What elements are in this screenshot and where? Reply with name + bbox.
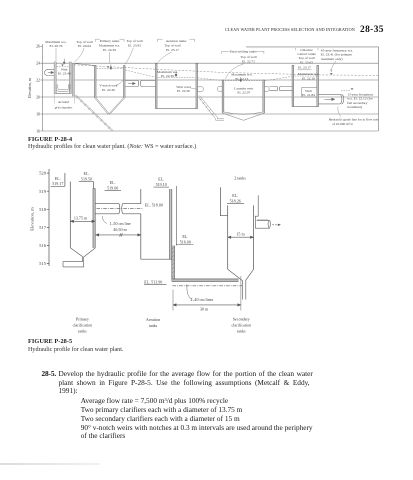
assumption list line 2 [81,406,243,413]
fig2 EL 513.90 underline [144,283,167,285]
fig1 aeration water surface [158,77,195,79]
svg-text:Elevation, m: Elevation, m [30,207,36,231]
svg-text:Weir crest: Weir crest [176,85,190,89]
fig2 dim 30 m extension lines [173,276,241,311]
fig2 leader 2-40cm to pipe [187,285,192,300]
svg-text:El. 26.76: El. 26.76 [50,44,63,48]
fig1 aerated grit chamber walls [54,62,74,96]
svg-text:El. 21.84: El. 21.84 [302,93,315,97]
fig1 WS dashed settling to chlorine [265,76,293,81]
fig2 label EL 518.26 [230,193,241,203]
fig1 influent pipe [45,70,55,76]
svg-text:Aeration: Aeration [146,317,160,322]
fig1 grit to primary top slope line [74,64,94,66]
fig1 grit chamber trough [56,84,70,91]
fig1 leader top of wall 23.93 [126,48,134,65]
svg-text:Aerated: Aerated [57,100,69,104]
svg-text:46.50 m: 46.50 m [113,227,127,232]
svg-text:Maximum w.s.: Maximum w.s. [99,43,120,47]
svg-text:24: 24 [36,62,40,66]
fig2 pipe centerline dash-dot [97,208,144,210]
fig1 settling drop arrow [240,77,242,82]
fig2 dim 15 m line [228,236,254,238]
svg-text:Top of wall: Top of wall [240,55,256,59]
svg-text:Maximum w.s.: Maximum w.s. [157,70,178,74]
svg-text:30 m: 30 m [200,307,209,312]
fig2 EL 519.00 underline [105,190,122,192]
fig1 grit chamber drop arrow [63,59,65,64]
svg-text:Elevation, m: Elevation, m [28,78,33,98]
fig1 aeration drop arrow [175,72,177,77]
fig2 primary influent line [64,173,66,186]
fig2 dim 30 m line [173,304,241,306]
fig1 WS dashed aeration to settling [198,78,223,81]
svg-text:519: 519 [39,189,47,194]
svg-text:16: 16 [36,129,40,133]
page number 28-35 [360,26,384,35]
svg-text:15 m: 15 m [236,231,245,236]
assumption list line 5 [81,432,126,439]
fig1 leader primary label [109,52,111,64]
fig2 outlet bottom line [255,227,270,229]
svg-text:1–50 cm line: 1–50 cm line [109,221,131,226]
svg-text:516.00: 516.00 [180,239,191,244]
problem paragraph line 1 [59,370,313,377]
fig2 primary hopper and sludge outlet [63,248,95,267]
svg-text:El. 24.39: El. 24.39 [103,48,116,52]
fig1 label chlorine max ws [298,72,319,80]
fig1 settling bracket lines [222,51,264,54]
svg-text:grit chamber: grit chamber [55,106,73,110]
fig1 label primary tanks bracket [99,39,120,52]
svg-text:Maximum w.s.: Maximum w.s. [231,73,252,77]
fig1 leader HGL note [338,107,341,117]
svg-text:El. 23.17: El. 23.17 [166,48,179,52]
fig1 label maximum ws El 26.76 [45,40,66,48]
svg-text:EL. 513.90: EL. 513.90 [144,279,162,284]
fig1 label chlorine contact tanks [297,48,316,65]
fig1 primary WS mark [107,66,110,68]
fig1 leader aeration label [158,52,172,63]
fig1 label weir El 23.46 [58,68,71,76]
fig1 right frame [378,47,380,131]
fig2 outlet weir line [257,219,269,221]
svg-text:26: 26 [36,45,40,49]
fig1 leader 45-year to WS mark [330,61,336,72]
fig2 aeration tank right wall (double with fill) [170,189,172,259]
fig1 grit chamber extension lines [54,94,74,104]
assumption list line 1 [81,397,228,404]
fig2 downcomer hatched bar [172,246,175,282]
fig2 label aeration tanks [146,317,160,328]
fig2 label secondary clarification tanks [232,317,252,334]
fig1 label top of wall El 23.93 [126,39,142,47]
fig1 45-year HGL dashed line across [74,65,378,76]
fig2 EL 518.26 underline [227,203,244,205]
svg-text:519.50: 519.50 [81,176,92,181]
running head title [225,28,355,32]
fig1 chlorine water surface [295,75,317,77]
fig1 pipe1 flow arrow [128,82,135,84]
svg-text:El. 22.71: El. 22.71 [242,60,255,64]
fig1 leader top of wall 22.71 [225,64,243,79]
fig2 dim 46.50 line [96,234,141,236]
fig2 50cm pipe primary to aeration [95,203,141,214]
fig2 outlet flow dashed arrow [272,224,278,226]
fig1 influent arrow [48,71,54,73]
svg-text:Weir: Weir [305,89,313,93]
svg-text:518: 518 [39,207,47,212]
svg-text:520: 520 [39,171,47,176]
fig2 primary tank left wall [69,182,71,248]
svg-text:V-notch weir: V-notch weir [99,84,118,88]
svg-text:20: 20 [36,95,40,99]
fig1 top partial line 26 [246,46,379,48]
svg-text:clarification: clarification [73,323,93,328]
fig2 label EL 519.17 [52,176,63,186]
problem paragraph line 3 [59,387,78,394]
fig1 label aeration max ws [157,70,178,78]
fig1 leader v-notch weir [117,80,124,86]
caption FIGURE P-28-5 title [28,339,72,345]
fig1 label settling max ws [231,73,252,81]
caption FIGURE P-28-4 text [28,144,196,150]
fig1 label v-notch weir [99,84,118,92]
svg-text:El. 22.13: El. 22.13 [235,77,248,81]
svg-text:22: 22 [36,78,40,82]
fig1 gridline 20 [42,96,378,98]
fig1 pipe primary to aeration [125,80,156,87]
fig1 label weir El 21.84 [302,89,315,97]
fig1 label aerated grit chamber [55,100,73,109]
fig1 El 23.17 underline [298,69,312,71]
fig1 chlorine contact tank walls [292,65,318,106]
svg-text:El. 22.39: El. 22.39 [161,74,174,78]
svg-text:518.26: 518.26 [230,198,241,203]
svg-text:El. 23.17: El. 23.17 [298,66,311,70]
svg-text:Launder weir: Launder weir [234,86,254,90]
fig1 15-year dash to pipe [341,90,350,92]
svg-text:El. 23.62: El. 23.62 [300,60,313,64]
fig2 EL 519.50 underline [79,181,94,183]
fig1 chlorine bracket ticks [295,48,318,50]
fig2 outlet bell [268,220,270,227]
assumption list line 3 [81,415,240,422]
svg-text:El. 24.64: El. 24.64 [78,44,91,48]
fig2 secondary sludge pipe [242,280,245,300]
fig1 label aeration tanks bracket [164,39,187,52]
assumption list line 4 [81,424,313,431]
fig1 leader weir crest [191,88,198,90]
fig2 secondary outlet downcomer [255,195,258,228]
svg-text:Top of wall: Top of wall [126,39,142,43]
fig1 sludge channel grit to primary hopper [74,95,113,131]
svg-text:519.17: 519.17 [52,181,63,186]
fig2 40cm pipes band [172,279,239,282]
fig1 label launder weir [234,86,254,94]
fig2 primary right wall upper stub [93,182,95,189]
svg-text:treatment only): treatment only) [321,57,344,61]
svg-text:Top of wall: Top of wall [164,43,180,47]
svg-text:treatment): treatment) [347,105,362,109]
fig2 dim 13.75 m line [70,220,95,222]
svg-text:El. 22.50: El. 22.50 [177,89,190,93]
svg-text:tanks: tanks [237,328,246,333]
svg-text:Aeration tanks: Aeration tanks [166,39,187,43]
fig1 15-year WS mark [351,88,354,90]
fig1 mixed liquor channel aeration to settling [198,96,224,121]
fig1 label top of wall El 22.71 [240,55,256,63]
fig2 leader 1-50cm to pipe [102,216,107,223]
svg-text:515: 515 [39,261,47,266]
caption FIGURE P-28-4 title [28,137,72,143]
svg-text:18: 18 [36,112,40,116]
svg-text:Final settling tanks: Final settling tanks [230,50,258,54]
svg-text:tanks: tanks [78,328,87,333]
fig1 settling effluent launder [265,87,270,92]
fig1 grit chamber WS mark [61,64,64,66]
svg-text:2 tanks: 2 tanks [234,176,246,181]
fig1 settling tank dished bottom [222,112,264,120]
fig2 aeration tank left wall [140,189,142,259]
fig1 axis tick labels [36,45,40,134]
fig1 wall fills [95,64,319,114]
fig1 bottom frame 16 [42,130,378,132]
svg-text:Primary: Primary [76,317,89,322]
fig2 aeration tank bottom [141,258,172,260]
fig1 primary drop arrow [110,65,112,70]
fig1 aeration WS mark [175,75,178,77]
fig1 y-axis [40,44,42,131]
fig2 label EL 519.50 [81,171,92,181]
svg-text:of 45,000 m³/d: of 45,000 m³/d [332,122,353,127]
svg-text:El. 22.16: El. 22.16 [302,77,315,81]
fig2 secondary tank walls [228,205,254,269]
fig2 EL 519.17 underline [51,185,65,187]
svg-text:Primary tanks: Primary tanks [100,39,120,43]
svg-text:tanks: tanks [149,323,158,328]
fig1 label 15-year frequency [347,92,373,109]
fig1 label 45-year frequency [321,48,353,60]
fig1 aeration bracket ticks [158,39,195,42]
fig1 aeration tank walls [156,64,198,109]
svg-text:519.00: 519.00 [107,185,118,190]
fig1 pipe settling to chlorine [270,86,293,91]
fig2 label EL 519.10 [156,177,167,187]
svg-text:clarification: clarification [232,323,252,328]
fig2 EL 519.10 underline [154,186,170,188]
svg-text:El. 24.30: El. 24.30 [102,88,115,92]
svg-text:El. 23.46: El. 23.46 [58,72,71,76]
problem number 28-5 [42,370,57,377]
fig2 label EL 516.00 [180,234,191,244]
fig2 40cm pipe centerline dash-dot [172,285,242,287]
fig1 label top of wall El 24.64 [76,40,92,48]
caption FIGURE P-28-5 text [28,347,123,353]
fig2 label EL 519.00 [107,180,118,190]
fig2 dim break mark [120,233,123,236]
fig2 effluent channel line [175,186,177,246]
svg-text:2–40 cm lines: 2–40 cm lines [190,297,213,302]
fig1 outfall arrow [325,98,335,101]
fig2 secondary influent line [220,187,227,215]
fig1 settling influent port [218,87,223,92]
fig1 chlorine weir box [302,88,317,98]
svg-text:517: 517 [39,225,47,230]
fig2 EL 516.00 underline [176,244,193,246]
fig1 gridline 18 [42,113,378,115]
fig1 primary bracket ticks [96,39,125,42]
fig1 leader from top of wall label [75,48,85,62]
svg-text:13.75 m: 13.75 m [74,215,88,220]
fig1 WS dashed primary to aeration [126,70,156,77]
fig1 gridline 24 [42,62,378,64]
fig2 label primary clarification tanks [73,317,93,334]
fig1 outfall conduit [319,94,344,104]
fig1 grit chamber wall fills [54,62,74,96]
fig2 y-axis [47,169,49,266]
svg-text:519.10: 519.10 [156,182,167,187]
svg-text:EL. 518.00: EL. 518.00 [145,202,163,207]
svg-text:El. 23.93: El. 23.93 [128,43,141,47]
fig1 gridline 22 [42,79,378,81]
fig1 label hydraulic grade line note [329,118,379,127]
problem paragraph line 2 [59,379,310,386]
fig2 primary right wall (double with fill) [93,189,95,249]
fig1 primary tank walls [95,65,126,97]
fig1 primary hopper [95,98,126,115]
fig1 settling water surface [225,80,262,82]
fig1 grit chamber water surface [57,66,70,68]
svg-text:516: 516 [39,243,47,248]
fig1 final settling tank walls [222,80,264,113]
svg-text:Secondary: Secondary [233,317,250,322]
svg-text:Maximum w.s.: Maximum w.s. [298,72,319,76]
scan shadow artifact bottom left [0,463,100,465]
fig1 aeration effluent weir box [198,87,204,92]
fig2 axis tick labels [39,171,47,267]
fig1 label weir crest [176,85,190,93]
fig1 primary water surface [97,68,124,70]
svg-text:El. 22.07: El. 22.07 [237,91,250,95]
fig1 leader from max ws label [55,48,57,62]
fig1 45-year WS mark [330,73,333,75]
fig2 secondary hopper [228,269,254,280]
